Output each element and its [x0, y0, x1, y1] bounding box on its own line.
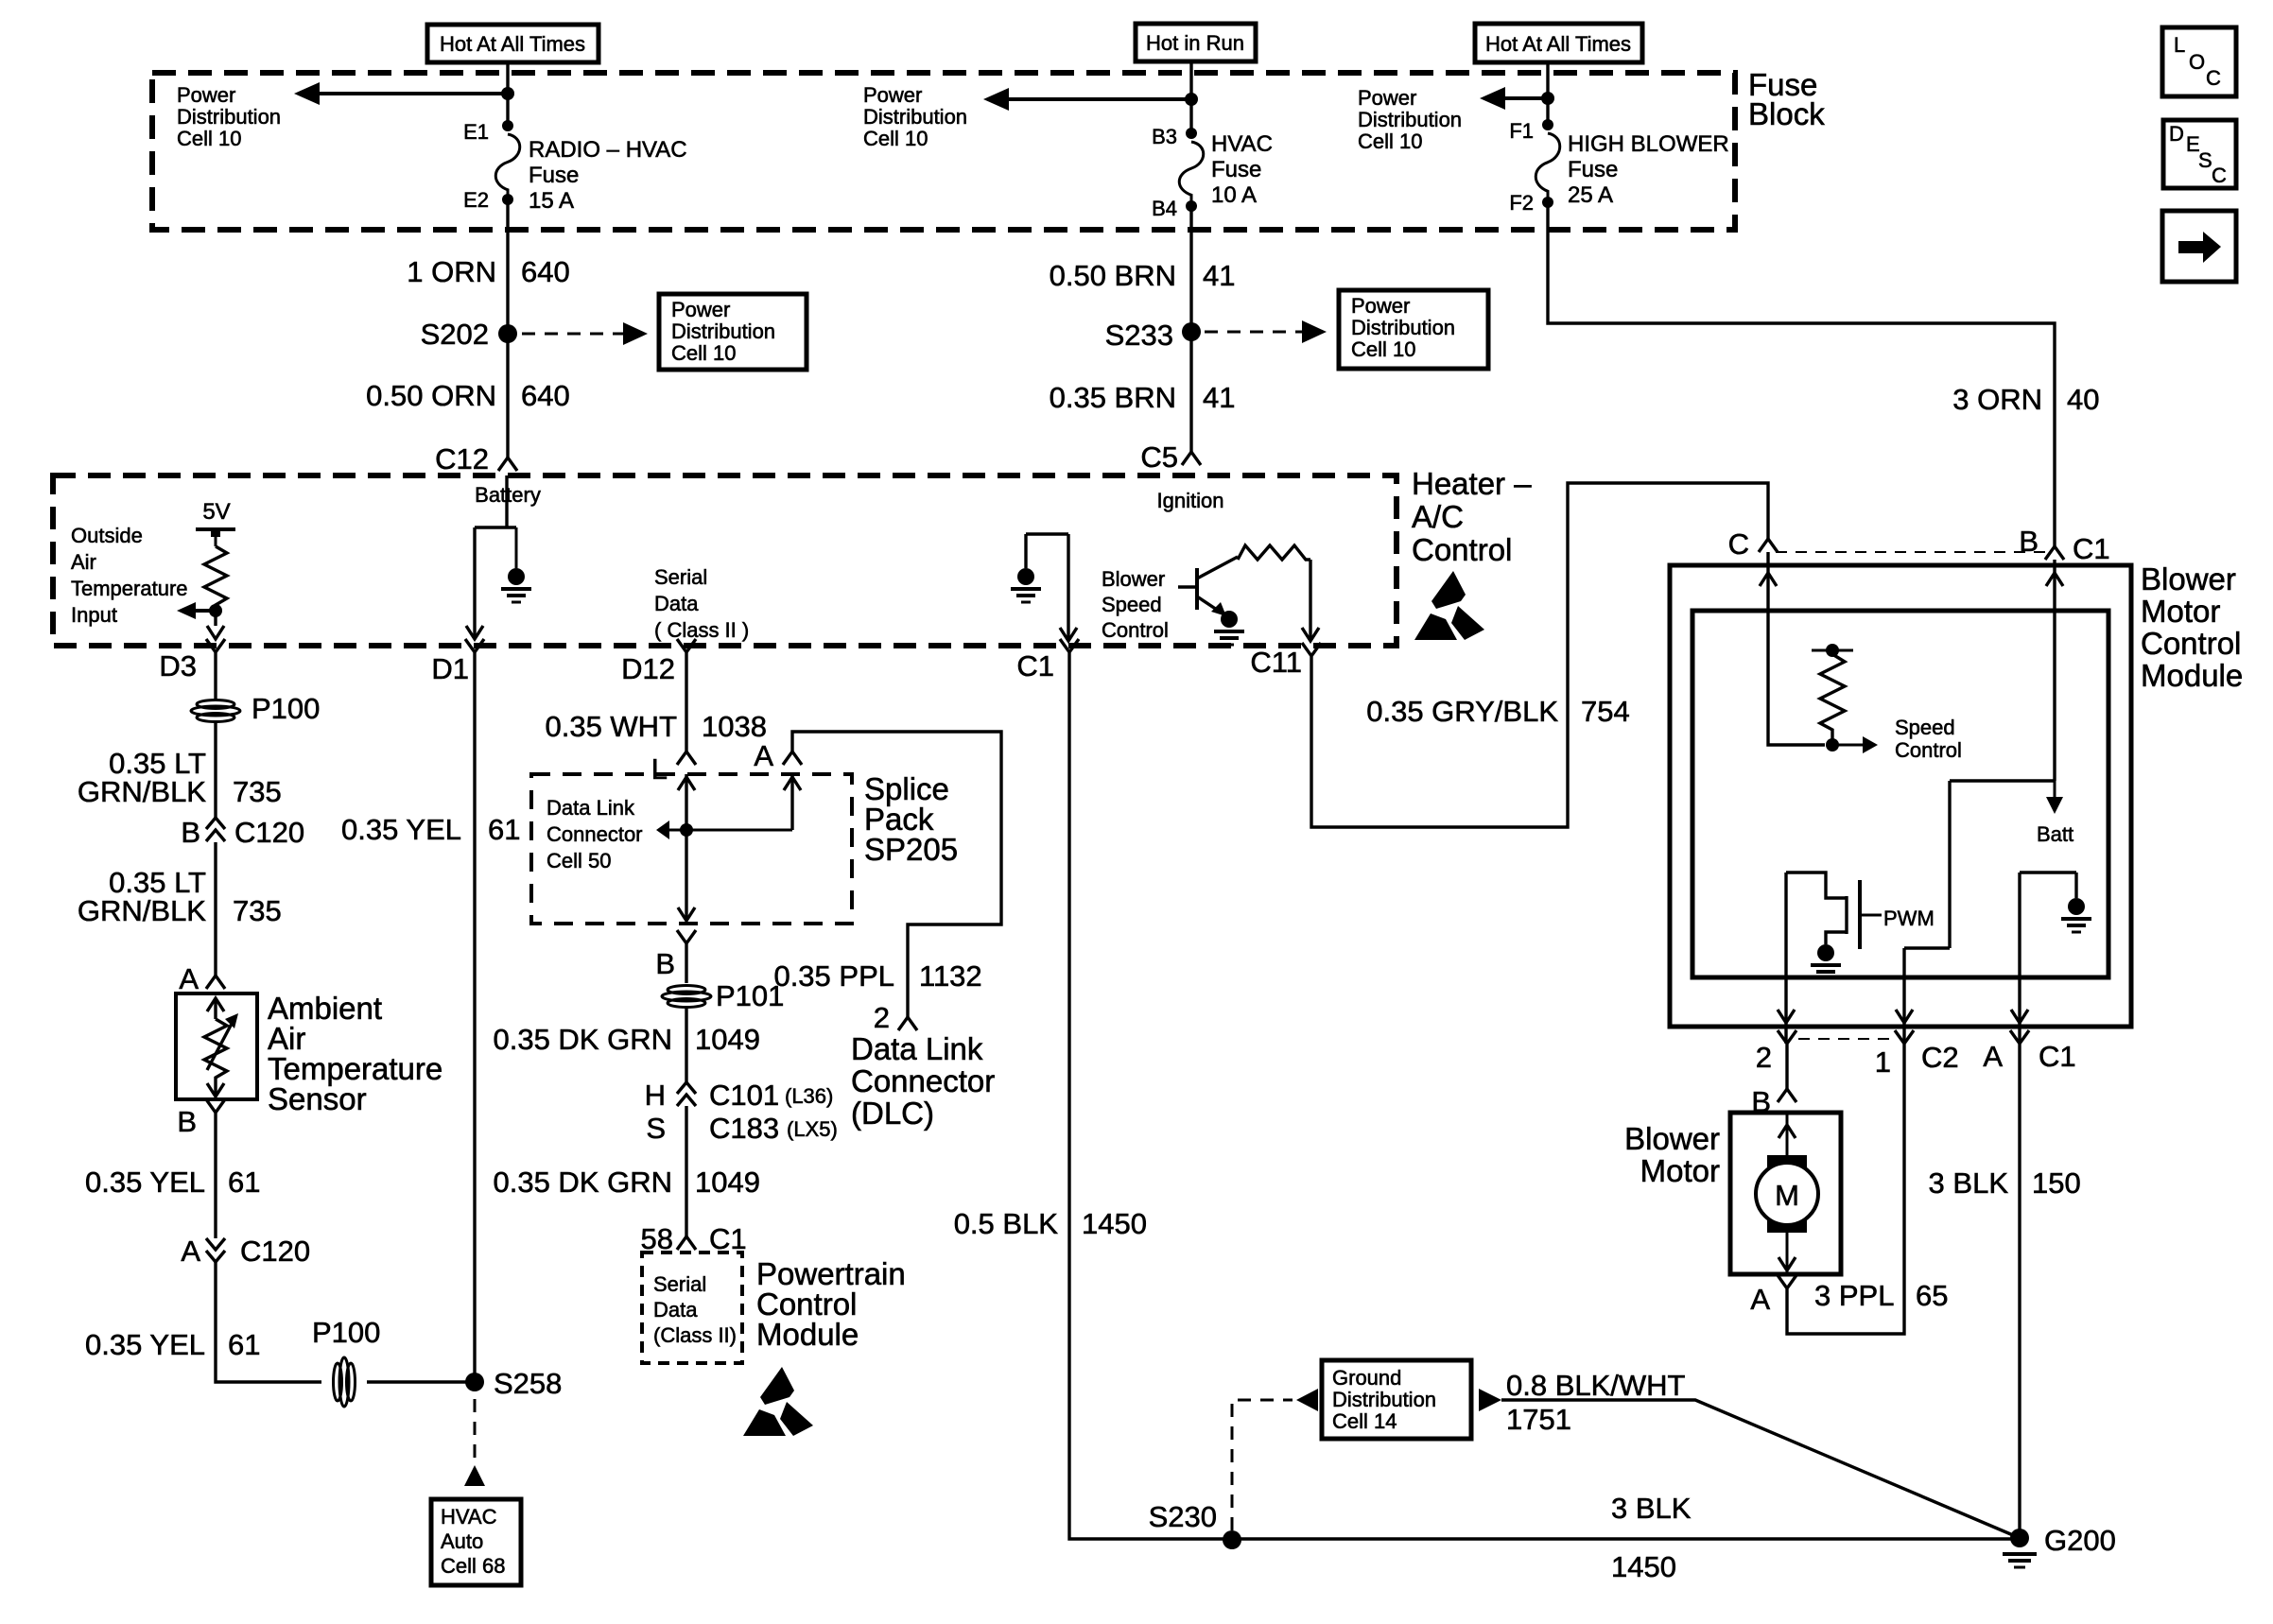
wire 0.35 LT GRN/BLK 735 (upper): [214, 722, 217, 818]
Ambient Air Temperature Sensor box: [176, 993, 257, 1099]
svg-text:P100: P100: [312, 1316, 380, 1349]
svg-text:Control: Control: [1895, 738, 1962, 762]
svg-text:Data Link: Data Link: [547, 796, 635, 820]
dashed wire S202 to Power Distribution cell: [522, 333, 623, 336]
svg-text:Distribution: Distribution: [177, 105, 281, 129]
svg-text:C: C: [2212, 164, 2227, 187]
node junction on right feed: [1541, 92, 1554, 105]
wire 0.35 YEL 61 (D1 to S258): [473, 665, 476, 1382]
svg-text:B4: B4: [1152, 197, 1177, 220]
legend box forward arrow: [2162, 211, 2236, 282]
wire arrow to Power Distribution Cell 10 (right): [1480, 87, 1505, 110]
svg-text:Power: Power: [671, 298, 730, 321]
svg-text:Data: Data: [654, 592, 699, 615]
svg-text:L: L: [651, 752, 668, 786]
svg-text:Air: Air: [71, 550, 96, 574]
svg-text:61: 61: [488, 813, 520, 846]
svg-text:GRN/BLK: GRN/BLK: [78, 894, 206, 927]
svg-text:10 A: 10 A: [1211, 182, 1257, 208]
svg-text:1: 1: [1875, 1045, 1891, 1079]
svg-text:S: S: [646, 1112, 666, 1145]
svg-text:Hot At All Times: Hot At All Times: [440, 32, 585, 56]
svg-text:Cell 50: Cell 50: [547, 849, 611, 872]
dashed wire S230 to Ground Distribution: [1232, 1400, 1293, 1530]
svg-text:C101: C101: [709, 1079, 779, 1112]
wire B pin to Batt: [1950, 560, 2055, 781]
svg-text:Distribution: Distribution: [1358, 108, 1462, 131]
svg-text:Hot in Run: Hot in Run: [1146, 31, 1244, 55]
svg-text:P100: P100: [252, 692, 320, 725]
svg-text:Cell 10: Cell 10: [863, 127, 928, 150]
ESD symbol (heater module): [1414, 571, 1484, 640]
wire ignition feed inside module: [1026, 534, 1068, 641]
pin B4: [1186, 200, 1197, 212]
svg-text:Cell 10: Cell 10: [177, 127, 241, 150]
svg-text:(LX5): (LX5): [787, 1117, 838, 1141]
svg-text:M: M: [1775, 1179, 1799, 1212]
inline connector P101: [662, 986, 711, 1008]
svg-text:B: B: [181, 816, 200, 849]
ESD symbol (PCM): [743, 1367, 813, 1436]
svg-text:3 BLK: 3 BLK: [1929, 1166, 2009, 1200]
svg-text:0.35 YEL: 0.35 YEL: [85, 1166, 205, 1199]
svg-text:61: 61: [228, 1166, 260, 1199]
wire 0.5 BLK 1450: [1069, 665, 2020, 1539]
svg-text:40: 40: [2067, 383, 2099, 416]
wire 3 ORN 40 from F2 to blower module B: [1548, 202, 2055, 546]
wire motor return to pin A: [2018, 872, 2021, 1044]
node junction on feed wire: [501, 87, 514, 100]
svg-text:61: 61: [228, 1328, 260, 1361]
svg-text:640: 640: [521, 255, 570, 288]
svg-text:735: 735: [233, 894, 282, 927]
node speed control junction: [1826, 738, 1839, 752]
svg-text:Cell 10: Cell 10: [671, 341, 736, 365]
svg-text:O: O: [2189, 50, 2205, 74]
svg-text:150: 150: [2032, 1166, 2081, 1200]
svg-text:Blower: Blower: [1624, 1121, 1720, 1156]
svg-text:65: 65: [1916, 1279, 1948, 1312]
ground (battery feed internal): [515, 527, 518, 568]
svg-text:C1: C1: [1016, 649, 1054, 682]
svg-text:S233: S233: [1105, 319, 1173, 352]
svg-text:G200: G200: [2044, 1524, 2116, 1557]
dashed connector line C1: [1776, 551, 2046, 553]
svg-text:Distribution: Distribution: [1332, 1388, 1436, 1411]
svg-text:A: A: [1750, 1283, 1770, 1316]
wire splice pack A to DLC pin 2: [792, 732, 1001, 1017]
svg-text:Speed: Speed: [1102, 593, 1162, 616]
svg-text:0.35 GRY/BLK: 0.35 GRY/BLK: [1366, 695, 1558, 728]
wire 0.35 DK GRN 1049 (lower): [685, 1106, 687, 1236]
fuse RADIO-HVAC 15 A: [495, 134, 520, 197]
svg-text:C183: C183: [709, 1112, 779, 1145]
svg-text:Connector: Connector: [547, 822, 643, 846]
transistor Q (blower speed control): [1195, 568, 1199, 610]
svg-text:Blower: Blower: [1102, 567, 1165, 591]
svg-text:Cell 14: Cell 14: [1332, 1409, 1397, 1433]
svg-text:1132: 1132: [919, 959, 982, 993]
svg-text:HVAC: HVAC: [441, 1505, 497, 1529]
wire 0.35 DK GRN 1049 (upper): [685, 1008, 687, 1083]
svg-text:Outside: Outside: [71, 524, 143, 547]
svg-text:Batt: Batt: [2037, 822, 2073, 846]
svg-text:1049: 1049: [695, 1023, 760, 1056]
pin B3: [1186, 128, 1197, 139]
wire arrow Speed Control: [1838, 744, 1865, 747]
ground (PWM source): [1817, 944, 1834, 961]
svg-text:A: A: [1983, 1040, 2003, 1073]
reference box Power Distribution Cell 10 (S202): [659, 294, 807, 370]
svg-text:S258: S258: [494, 1367, 562, 1400]
wire from Hot At All Times to fuse F1: [1546, 62, 1549, 125]
svg-text:D3: D3: [159, 649, 197, 682]
svg-text:SP205: SP205: [864, 832, 958, 867]
splice S230: [1223, 1530, 1241, 1549]
svg-text:754: 754: [1581, 695, 1630, 728]
svg-text:2: 2: [874, 1001, 890, 1034]
resistor (outside air temp pull-up): [204, 546, 227, 626]
wire 0.8 BLK/WHT 1751: [1479, 1389, 1501, 1411]
svg-text:HIGH BLOWER: HIGH BLOWER: [1568, 131, 1729, 157]
wire pin 2 to blower motor B: [1785, 1057, 1788, 1089]
Splice Pack SP205 dashed box: [531, 774, 852, 924]
svg-text:Distribution: Distribution: [863, 105, 967, 129]
dashed connector line C2: [1798, 1038, 1893, 1040]
svg-text:0.50 BRN: 0.50 BRN: [1050, 259, 1176, 292]
svg-text:Data: Data: [653, 1298, 698, 1322]
svg-text:Fuse: Fuse: [1211, 157, 1261, 182]
svg-text:Control: Control: [1412, 532, 1512, 567]
svg-text:A/C: A/C: [1412, 499, 1464, 534]
svg-text:1450: 1450: [1611, 1550, 1676, 1583]
svg-text:F1: F1: [1509, 119, 1534, 143]
node splice junction: [680, 823, 693, 837]
svg-text:3 PPL: 3 PPL: [1814, 1279, 1894, 1312]
svg-text:Speed: Speed: [1895, 716, 1955, 739]
svg-text:Power: Power: [1351, 294, 1410, 318]
svg-text:Power: Power: [1358, 86, 1416, 110]
wire from Hot At All Times to fuse E1: [506, 62, 509, 126]
ground (ignition feed internal): [1017, 568, 1034, 585]
svg-text:C1: C1: [709, 1222, 747, 1255]
svg-text:1751: 1751: [1506, 1403, 1571, 1436]
thermistor (ambient air temperature sensor): [207, 998, 224, 1011]
svg-text:B3: B3: [1152, 125, 1177, 148]
svg-text:(DLC): (DLC): [851, 1096, 934, 1131]
svg-text:S202: S202: [421, 318, 489, 351]
svg-text:E2: E2: [463, 188, 489, 212]
svg-text:Fuse: Fuse: [529, 163, 579, 188]
svg-text:Sensor: Sensor: [268, 1081, 367, 1116]
node outside air temp sense junction: [209, 604, 222, 617]
svg-text:Input: Input: [71, 603, 117, 627]
pin E1: [502, 120, 513, 131]
fuse HIGH BLOWER 25 A: [1536, 133, 1560, 199]
Blower Motor box: [1730, 1113, 1841, 1274]
svg-text:Ignition: Ignition: [1157, 489, 1224, 512]
node junction on Hot in Run feed: [1185, 93, 1198, 106]
motor M (blower motor): [1786, 1113, 1789, 1159]
wire to D3 with arrow: [207, 626, 224, 639]
svg-text:C1: C1: [2073, 532, 2110, 565]
svg-text:0.8 BLK/WHT: 0.8 BLK/WHT: [1506, 1369, 1686, 1402]
inline connector P100: [191, 700, 240, 722]
svg-text:C2: C2: [1921, 1041, 1959, 1074]
svg-text:D1: D1: [431, 652, 469, 685]
splice S202: [498, 324, 517, 343]
svg-text:E1: E1: [463, 120, 489, 144]
wire arrow Batt: [2054, 781, 2056, 799]
svg-text:5V: 5V: [202, 499, 230, 525]
svg-text:Motor: Motor: [2141, 594, 2220, 629]
wire serial data through splice pack: [678, 777, 695, 790]
svg-text:C: C: [1728, 527, 1749, 561]
transistor PWM output (MOSFET): [1786, 872, 1847, 944]
wire 0.50 BRN 41: [1189, 206, 1192, 452]
wire 1 ORN 640: [506, 199, 509, 458]
reference box HVAC Auto Cell 68: [431, 1499, 521, 1585]
svg-text:0.5 BLK: 0.5 BLK: [954, 1207, 1059, 1240]
dashed wire S233 to Power Distribution cell: [1205, 331, 1302, 334]
svg-text:Auto: Auto: [441, 1529, 483, 1553]
svg-text:Fuse: Fuse: [1568, 157, 1618, 182]
wire 0.35 LT GRN/BLK 735 (lower): [214, 842, 217, 976]
svg-text:0.35 BRN: 0.35 BRN: [1050, 381, 1176, 414]
svg-text:0.35 YEL: 0.35 YEL: [341, 813, 461, 846]
wire B to P101: [685, 957, 687, 983]
pin F2: [1542, 197, 1553, 208]
Heater A/C Control dashed box: [53, 475, 1397, 646]
svg-text:Cell 68: Cell 68: [441, 1554, 505, 1578]
svg-text:H: H: [645, 1079, 666, 1112]
svg-text:B: B: [177, 1105, 197, 1138]
wire 0.35 WHT 1038: [685, 665, 687, 752]
legend box LOC: [2162, 27, 2236, 96]
svg-text:Heater –: Heater –: [1412, 466, 1532, 501]
svg-text:S230: S230: [1149, 1500, 1217, 1533]
svg-text:S: S: [2198, 148, 2212, 172]
svg-text:0.35 WHT: 0.35 WHT: [545, 710, 677, 743]
svg-text:C120: C120: [240, 1235, 310, 1268]
Blower Motor Control Module inner box: [1692, 611, 2108, 977]
label box Hot in Run: [1136, 24, 1256, 61]
label box Hot At All Times (right): [1475, 24, 1642, 62]
svg-text:(Class II): (Class II): [653, 1323, 737, 1347]
splice S258: [465, 1373, 484, 1391]
wire D3 to P100: [214, 665, 217, 700]
svg-text:25 A: 25 A: [1568, 182, 1613, 208]
svg-text:Power: Power: [177, 83, 235, 107]
svg-text:Data Link: Data Link: [851, 1031, 983, 1066]
svg-text:Control: Control: [2141, 626, 2241, 661]
svg-text:Control: Control: [1102, 618, 1169, 642]
svg-text:C1: C1: [2039, 1040, 2076, 1073]
wire P100 to S258: [367, 1380, 475, 1383]
svg-text:C120: C120: [234, 816, 304, 849]
svg-text:41: 41: [1203, 381, 1235, 414]
pin F1: [1542, 119, 1553, 130]
svg-text:Power: Power: [863, 83, 922, 107]
wire 0.35 YEL 61 (C120 to S258): [216, 1262, 321, 1382]
svg-text:Distribution: Distribution: [1351, 316, 1455, 339]
svg-text:Block: Block: [1748, 96, 1825, 131]
svg-text:Temperature: Temperature: [71, 577, 188, 600]
svg-text:1038: 1038: [702, 710, 767, 743]
wire arrow to Power Distribution Cell 10 (middle): [983, 88, 1009, 111]
svg-text:1049: 1049: [695, 1166, 760, 1199]
fuse block dashed box: [152, 73, 1735, 230]
svg-text:Motor: Motor: [1640, 1153, 1720, 1188]
svg-text:Ground: Ground: [1332, 1366, 1401, 1390]
legend box DESC: [2163, 120, 2236, 188]
svg-text:3 BLK: 3 BLK: [1611, 1492, 1692, 1525]
svg-text:A: A: [179, 962, 199, 995]
svg-text:640: 640: [521, 379, 570, 412]
wire PWM drain to pin 2: [1784, 872, 1787, 1044]
wire C pin to speed control: [1768, 552, 1825, 745]
wire arrow to Power Distribution Cell 10 (left): [294, 82, 320, 105]
svg-text:D: D: [2169, 122, 2184, 146]
svg-text:(L36): (L36): [785, 1084, 833, 1108]
svg-text:2: 2: [1756, 1041, 1772, 1074]
svg-text:15 A: 15 A: [529, 188, 574, 214]
wire 3 PPL 65: [1787, 1057, 1904, 1334]
wire resistor to C11: [1309, 560, 1311, 641]
PCM Serial Data dashed box: [642, 1253, 742, 1363]
svg-text:Connector: Connector: [851, 1063, 995, 1098]
dashed wire S258 to HVAC Auto: [474, 1399, 477, 1461]
svg-text:0.35 YEL: 0.35 YEL: [85, 1328, 205, 1361]
svg-text:0.50 ORN: 0.50 ORN: [366, 379, 496, 412]
svg-text:C5: C5: [1140, 441, 1178, 474]
wire 0.35 YEL 61 (sensor to C120): [214, 1126, 217, 1238]
wire splice A branch into pack: [784, 777, 801, 790]
svg-text:Serial: Serial: [654, 565, 707, 589]
svg-text:HVAC: HVAC: [1211, 131, 1273, 157]
svg-text:C12: C12: [435, 442, 489, 475]
svg-text:D12: D12: [621, 652, 675, 685]
ground G200: [2010, 1529, 2029, 1547]
resistor (speed control input): [1812, 649, 1853, 652]
wire arrow to Data Link Connector Cell 50: [668, 829, 792, 832]
wire arrow outside air temperature input: [177, 602, 196, 619]
fuse HVAC 10 A: [1179, 142, 1204, 201]
svg-text:B: B: [655, 947, 675, 980]
label box Hot At All Times (left): [427, 25, 599, 62]
svg-text:1 ORN: 1 ORN: [407, 255, 496, 288]
reference box Ground Distribution Cell 14: [1322, 1360, 1471, 1439]
svg-text:1450: 1450: [1082, 1207, 1147, 1240]
svg-text:Hot At All Times: Hot At All Times: [1485, 32, 1631, 56]
svg-text:0.35 PPL: 0.35 PPL: [773, 959, 894, 993]
svg-text:Blower: Blower: [2141, 561, 2236, 596]
svg-text:0.35 DK GRN: 0.35 DK GRN: [493, 1166, 672, 1199]
reference box Power Distribution Cell 10 (S233): [1339, 290, 1488, 369]
svg-text:C: C: [2206, 66, 2221, 90]
svg-text:PWM: PWM: [1883, 907, 1935, 930]
svg-text:41: 41: [1203, 259, 1235, 292]
ground (motor return internal): [2020, 872, 2076, 898]
svg-text:B: B: [2019, 525, 2039, 558]
wire from Hot in Run to fuse B3: [1189, 61, 1192, 133]
svg-text:Module: Module: [2141, 658, 2243, 693]
wire 3 BLK 150: [2018, 1057, 2021, 1538]
svg-text:3 ORN: 3 ORN: [1952, 383, 2042, 416]
svg-text:Module: Module: [756, 1317, 859, 1352]
svg-text:( Class II ): ( Class II ): [654, 618, 749, 642]
svg-text:Cell 10: Cell 10: [1351, 337, 1415, 361]
svg-text:C11: C11: [1250, 646, 1302, 679]
svg-text:A: A: [754, 739, 773, 772]
wire batt branch to pin 1: [1904, 781, 1950, 1044]
ground (speed control emitter): [1221, 611, 1238, 628]
svg-text:L: L: [2174, 33, 2185, 57]
wire 0.35 GRY/BLK 754: [1311, 483, 1768, 827]
svg-text:A: A: [181, 1235, 200, 1268]
svg-text:0.35 DK GRN: 0.35 DK GRN: [493, 1023, 672, 1056]
svg-text:Cell 10: Cell 10: [1358, 130, 1422, 153]
wire battery feed inside module: [475, 475, 516, 639]
svg-text:Distribution: Distribution: [671, 320, 775, 343]
svg-text:58: 58: [641, 1222, 673, 1255]
svg-text:Serial: Serial: [653, 1272, 706, 1296]
resistor (speed control collector): [1238, 545, 1310, 560]
svg-text:RADIO – HVAC: RADIO – HVAC: [529, 137, 687, 163]
svg-text:735: 735: [233, 775, 282, 808]
svg-text:F2: F2: [1509, 191, 1534, 215]
svg-text:GRN/BLK: GRN/BLK: [78, 775, 206, 808]
pin E2: [502, 194, 513, 205]
splice S233: [1182, 322, 1201, 341]
Blower Motor Control Module outer box: [1670, 565, 2131, 1027]
